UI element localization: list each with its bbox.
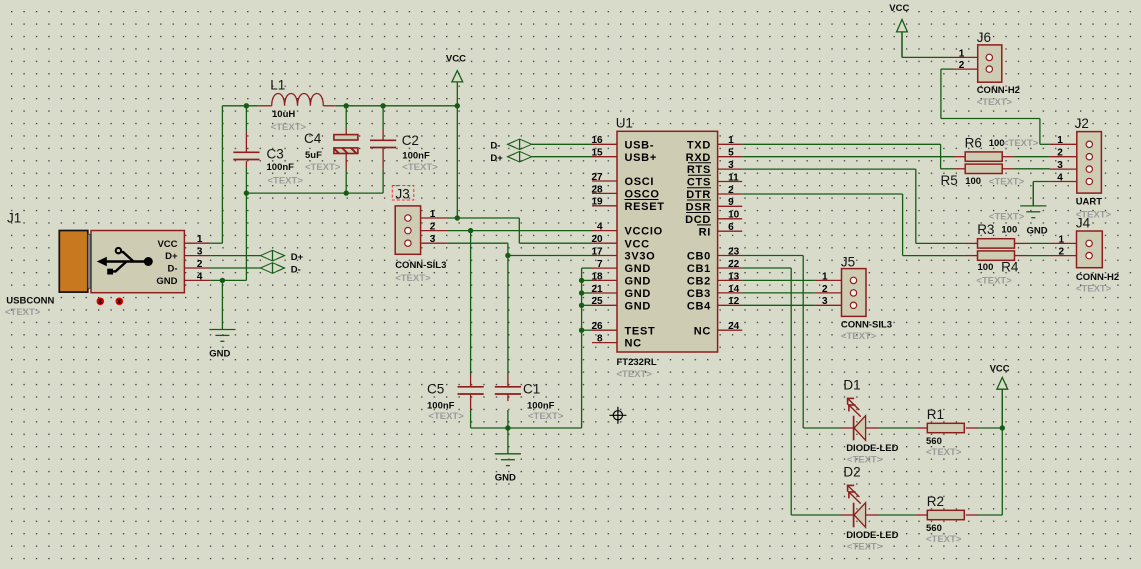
svg-text:<TEXT>: <TEXT>	[976, 275, 1012, 286]
svg-text:<TEXT>: <TEXT>	[926, 447, 962, 458]
svg-text:J4: J4	[1076, 216, 1091, 231]
svg-text:D-: D-	[490, 141, 500, 152]
svg-text:100nF: 100nF	[427, 401, 455, 412]
svg-text:9: 9	[728, 197, 734, 208]
svg-text:CONN-SIL3: CONN-SIL3	[841, 319, 892, 330]
svg-text:R1: R1	[927, 407, 944, 422]
svg-text:26: 26	[591, 321, 603, 332]
svg-text:CB1: CB1	[687, 263, 711, 275]
svg-text:D+: D+	[490, 153, 503, 164]
svg-text:DCD: DCD	[685, 214, 711, 226]
wire	[941, 118, 1040, 120]
resistor R6	[965, 136, 1039, 162]
wire	[508, 255, 592, 257]
junction	[505, 425, 510, 430]
wire	[582, 279, 592, 281]
svg-text:1: 1	[822, 271, 828, 282]
svg-text:C2: C2	[402, 133, 419, 148]
svg-text:D+: D+	[165, 251, 178, 262]
svg-text:DTR: DTR	[686, 189, 711, 201]
svg-text:23: 23	[728, 246, 740, 257]
capacitor C4	[304, 131, 358, 173]
svg-text:<TEXT>: <TEXT>	[1076, 284, 1112, 295]
J3 pin stubs	[421, 218, 447, 243]
wire	[221, 106, 223, 243]
svg-text:5uF: 5uF	[305, 150, 322, 161]
selection marker	[392, 186, 414, 201]
resistor R5	[941, 164, 1025, 188]
svg-text:CB4: CB4	[687, 300, 711, 312]
wire	[582, 304, 592, 306]
svg-text:2: 2	[1058, 247, 1064, 258]
wire	[222, 105, 258, 107]
wire	[382, 169, 384, 193]
svg-text:1: 1	[959, 48, 965, 59]
svg-text:1: 1	[197, 234, 203, 245]
svg-text:7: 7	[597, 259, 603, 270]
svg-text:<TEXT>: <TEXT>	[402, 162, 438, 173]
svg-text:1: 1	[1057, 135, 1063, 146]
svg-text:C1: C1	[523, 382, 540, 397]
svg-text:C5: C5	[427, 382, 444, 397]
wire	[532, 143, 592, 145]
svg-text:GND: GND	[1027, 225, 1048, 236]
svg-text:RTS: RTS	[687, 164, 711, 176]
svg-text:28: 28	[591, 184, 603, 195]
svg-text:100: 100	[1001, 225, 1017, 236]
svg-text:100nF: 100nF	[527, 401, 555, 412]
svg-text:2: 2	[728, 185, 734, 196]
wire	[978, 427, 1002, 429]
svg-text:100nF: 100nF	[267, 162, 295, 173]
connector J4	[1058, 216, 1119, 295]
svg-text:4: 4	[197, 271, 203, 282]
terminal D-	[490, 139, 531, 152]
svg-text:<TEXT>: <TEXT>	[989, 177, 1025, 188]
svg-text:D-: D-	[291, 264, 301, 275]
svg-text:NC: NC	[625, 338, 642, 350]
svg-text:1: 1	[728, 135, 734, 146]
wire	[903, 255, 965, 257]
svg-text:<TEXT>: <TEXT>	[989, 212, 1025, 223]
svg-text:VCC: VCC	[625, 238, 650, 250]
svg-text:R5: R5	[941, 173, 958, 188]
resistor R4	[976, 251, 1018, 286]
junction	[1000, 425, 1005, 430]
svg-text:10: 10	[728, 210, 740, 221]
svg-text:18: 18	[591, 271, 603, 282]
junction	[455, 103, 460, 108]
power flag VCC	[889, 3, 909, 58]
svg-text:RI: RI	[699, 226, 711, 238]
svg-text:12: 12	[728, 296, 740, 307]
wire	[879, 427, 916, 429]
wire	[742, 156, 953, 158]
wire	[245, 168, 247, 194]
svg-text:U1: U1	[616, 116, 633, 131]
wire	[507, 256, 509, 375]
wire	[915, 169, 917, 243]
wire	[519, 242, 592, 244]
svg-text:<TEXT>: <TEXT>	[428, 411, 464, 422]
svg-text:2: 2	[1057, 148, 1063, 159]
wire	[1033, 181, 1050, 183]
wire	[1032, 182, 1034, 206]
svg-text:CONN-H2: CONN-H2	[977, 85, 1020, 96]
svg-text:C4: C4	[304, 131, 322, 146]
U1 right pin stubs	[718, 144, 743, 330]
svg-text:R6: R6	[965, 136, 982, 151]
svg-text:5: 5	[728, 148, 734, 159]
wire	[902, 194, 904, 256]
svg-text:L1: L1	[270, 78, 285, 93]
svg-text:19: 19	[591, 197, 603, 208]
svg-text:25: 25	[591, 296, 603, 307]
svg-text:3: 3	[1057, 160, 1063, 171]
svg-text:VCC: VCC	[990, 364, 1010, 375]
wire	[940, 144, 942, 169]
svg-text:11: 11	[728, 172, 739, 183]
svg-text:13: 13	[728, 271, 740, 282]
svg-text:GND: GND	[625, 300, 652, 312]
svg-text:6: 6	[728, 222, 734, 233]
svg-text:4: 4	[597, 222, 603, 233]
svg-text:VCC: VCC	[889, 3, 909, 14]
svg-text:D1: D1	[843, 378, 860, 393]
wire	[582, 329, 592, 331]
wire	[978, 514, 1002, 516]
svg-text:100nF: 100nF	[402, 151, 430, 162]
svg-text:GND: GND	[625, 276, 652, 288]
svg-text:TEST: TEST	[625, 325, 656, 337]
svg-text:USBCONN: USBCONN	[6, 296, 54, 307]
wire	[1027, 242, 1050, 244]
wire	[742, 292, 815, 294]
wire	[742, 143, 940, 145]
svg-text:560: 560	[926, 523, 942, 534]
svg-text:3: 3	[822, 296, 828, 307]
connector J5	[822, 255, 892, 343]
svg-text:GND: GND	[495, 473, 516, 484]
capacitor C5	[427, 382, 484, 423]
svg-text:CTS: CTS	[687, 177, 711, 189]
svg-text:<TEXT>: <TEXT>	[528, 411, 564, 422]
connector J3	[395, 187, 446, 284]
svg-text:USB-: USB-	[625, 139, 655, 151]
svg-text:GND: GND	[625, 288, 652, 300]
wire	[1014, 168, 1050, 170]
junction	[344, 103, 349, 108]
terminal D+	[490, 151, 531, 164]
wire	[790, 268, 792, 515]
svg-text:DIODE-LED: DIODE-LED	[846, 530, 898, 541]
junction	[244, 103, 249, 108]
wire	[345, 170, 347, 193]
svg-text:560: 560	[926, 436, 942, 447]
svg-text:J2: J2	[1075, 116, 1089, 131]
connector J2	[1057, 116, 1111, 221]
wire	[802, 256, 804, 429]
svg-text:<TEXT>: <TEXT>	[841, 331, 877, 342]
wire	[940, 69, 942, 118]
wire	[470, 231, 472, 375]
svg-text:J6: J6	[977, 30, 991, 45]
svg-text:<TEXT>: <TEXT>	[1003, 138, 1039, 149]
wire	[507, 410, 509, 428]
LED D2	[843, 465, 898, 553]
wire	[447, 230, 592, 232]
wire	[447, 242, 508, 244]
svg-text:USB+: USB+	[625, 152, 657, 164]
svg-text:GND: GND	[209, 349, 230, 360]
svg-text:2: 2	[430, 222, 436, 233]
svg-text:<TEXT>: <TEXT>	[847, 542, 883, 553]
power flag VCC	[990, 364, 1010, 429]
svg-text:CONN-H2: CONN-H2	[1076, 272, 1119, 283]
svg-text:R4: R4	[1001, 260, 1019, 275]
svg-text:2: 2	[197, 259, 203, 270]
wire	[447, 217, 519, 219]
wire	[382, 106, 384, 129]
svg-text:3: 3	[430, 234, 436, 245]
component lead stubs	[246, 106, 1026, 515]
svg-text:VCC: VCC	[157, 239, 177, 250]
capacitor C1	[495, 382, 564, 423]
wire	[470, 410, 472, 428]
wire	[210, 267, 260, 269]
svg-text:GND: GND	[625, 263, 652, 275]
svg-text:17: 17	[591, 246, 603, 257]
svg-text:J1: J1	[7, 211, 21, 226]
terminal D+	[261, 250, 304, 263]
J2 pin stubs	[1050, 144, 1077, 181]
power flag VCC	[446, 53, 466, 106]
svg-text:<TEXT>: <TEXT>	[271, 122, 307, 133]
svg-text:D-: D-	[167, 264, 177, 275]
svg-text:2: 2	[822, 284, 828, 295]
svg-text:8: 8	[597, 334, 603, 345]
U1 left pin stubs	[592, 144, 617, 342]
svg-text:14: 14	[728, 284, 740, 295]
svg-text:D2: D2	[843, 465, 860, 480]
terminal D-	[261, 263, 301, 276]
svg-text:1: 1	[430, 209, 436, 220]
svg-text:2: 2	[959, 60, 965, 71]
svg-text:D+: D+	[291, 252, 304, 263]
svg-text:27: 27	[591, 172, 603, 183]
svg-text:C3: C3	[267, 147, 284, 162]
svg-text:RESET: RESET	[625, 201, 665, 213]
junction	[220, 278, 225, 283]
svg-text:<TEXT>: <TEXT>	[926, 534, 962, 545]
svg-text:CB3: CB3	[687, 288, 711, 300]
wire	[803, 427, 840, 429]
wire	[902, 56, 953, 58]
wire	[916, 242, 965, 244]
ground	[209, 280, 235, 359]
svg-text:15: 15	[591, 148, 603, 159]
ground	[1020, 182, 1048, 237]
LED D1	[843, 378, 898, 466]
svg-text:<TEXT>: <TEXT>	[305, 162, 341, 173]
junction	[579, 278, 584, 283]
wire	[1014, 156, 1050, 158]
J6 pin stubs	[953, 57, 978, 69]
wire	[245, 106, 247, 132]
svg-text:DIODE-LED: DIODE-LED	[846, 443, 898, 454]
junction	[455, 215, 460, 220]
wire	[210, 279, 246, 281]
svg-text:R2: R2	[927, 494, 944, 509]
resistor R2	[926, 494, 964, 545]
svg-text:VCC: VCC	[446, 53, 466, 64]
wire	[507, 243, 509, 255]
svg-text:100: 100	[978, 262, 994, 273]
wire	[901, 32, 903, 58]
svg-text:UART: UART	[1076, 196, 1103, 207]
junction	[505, 253, 510, 258]
J5 pin stubs	[815, 280, 842, 305]
svg-text:20: 20	[591, 234, 603, 245]
svg-text:VCCIO: VCCIO	[625, 226, 663, 238]
wire	[879, 514, 916, 516]
svg-text:NC: NC	[694, 325, 711, 337]
svg-text:4: 4	[1057, 172, 1063, 183]
wire	[742, 304, 815, 306]
junction	[579, 328, 584, 333]
wire	[1039, 119, 1041, 145]
svg-text:<TEXT>: <TEXT>	[617, 369, 653, 380]
wire	[1040, 143, 1050, 145]
IC U1 FT232RL	[591, 116, 739, 381]
junction	[380, 103, 385, 108]
wire	[742, 255, 803, 257]
wire	[582, 292, 592, 294]
wire	[1027, 255, 1050, 257]
wire	[742, 168, 916, 170]
svg-text:OSCI: OSCI	[625, 176, 655, 188]
resistor R3	[977, 212, 1025, 248]
svg-text:24: 24	[728, 321, 740, 332]
svg-text:CONN-SIL3: CONN-SIL3	[395, 260, 446, 271]
svg-text:FT232RL: FT232RL	[617, 357, 657, 368]
wire	[1001, 389, 1003, 515]
resistor R1	[926, 407, 964, 458]
junction	[579, 290, 584, 295]
wire	[791, 514, 840, 516]
svg-text:22: 22	[728, 259, 740, 270]
junction	[244, 190, 249, 195]
svg-text:<TEXT>: <TEXT>	[268, 175, 304, 186]
svg-text:3V3O: 3V3O	[625, 251, 656, 263]
wire	[336, 105, 458, 107]
svg-text:DSR: DSR	[686, 201, 711, 213]
svg-text:TXD: TXD	[687, 139, 711, 151]
wire	[456, 106, 458, 218]
connector J6	[959, 30, 1020, 108]
wire	[210, 242, 222, 244]
wire	[210, 255, 260, 257]
wire	[581, 268, 583, 428]
wire	[742, 193, 902, 195]
svg-text:1: 1	[1058, 234, 1064, 245]
svg-text:<TEXT>: <TEXT>	[5, 307, 41, 318]
junction	[579, 303, 584, 308]
svg-text:OSCO: OSCO	[625, 189, 660, 201]
marker pads	[97, 298, 124, 306]
svg-text:100: 100	[965, 176, 981, 187]
ground	[495, 428, 521, 484]
svg-text:21: 21	[591, 284, 603, 295]
svg-text:<TEXT>: <TEXT>	[977, 97, 1013, 108]
svg-text:<TEXT>: <TEXT>	[395, 273, 431, 284]
wire	[345, 106, 347, 129]
wire	[245, 193, 247, 280]
origin marker	[609, 407, 626, 424]
capacitor C3	[233, 147, 303, 187]
wire	[246, 192, 383, 194]
wire	[532, 156, 592, 158]
wire	[742, 267, 791, 269]
svg-text:J3: J3	[396, 187, 410, 202]
svg-text:10uH: 10uH	[272, 109, 295, 120]
wire	[582, 267, 592, 269]
wire	[518, 218, 520, 243]
svg-text:16: 16	[591, 135, 603, 146]
svg-text:CB0: CB0	[687, 251, 711, 263]
J4 pin stubs	[1050, 243, 1077, 255]
capacitor C2	[370, 133, 438, 173]
svg-text:3: 3	[728, 160, 734, 171]
svg-text:CB2: CB2	[687, 276, 711, 288]
wire	[471, 427, 582, 429]
svg-text:J5: J5	[841, 255, 855, 270]
wire	[941, 68, 953, 70]
inductor L1	[270, 78, 323, 133]
svg-text:R3: R3	[977, 222, 994, 237]
svg-text:3: 3	[197, 247, 203, 258]
connector J1 USBCONN	[5, 211, 203, 319]
junction	[344, 190, 349, 195]
wire	[742, 279, 815, 281]
svg-text:RXD: RXD	[686, 152, 711, 164]
wire	[941, 168, 954, 170]
J1 pin stubs	[184, 243, 210, 280]
junction	[468, 228, 473, 233]
svg-text:GND: GND	[156, 276, 177, 287]
